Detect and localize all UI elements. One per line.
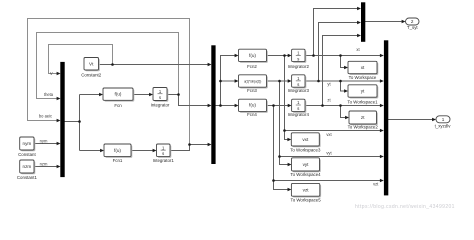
integrator Integrator3 [292, 75, 305, 87]
svg-text:To Workspace4: To Workspace4 [290, 172, 321, 177]
node Vt tap [111, 63, 114, 66]
svg-text:s: s [297, 82, 299, 87]
svg-text:Constant2: Constant2 [81, 73, 102, 78]
wire zt feedback to Mux3 [323, 36, 360, 106]
arrows into Mux3 [357, 7, 361, 10]
node vyt tap [278, 80, 281, 83]
svg-text:To Workspace: To Workspace [349, 75, 377, 80]
svg-text:f(u): f(u) [114, 148, 121, 153]
arrows into Mux2 [208, 63, 212, 66]
svg-text:V: V [50, 71, 53, 76]
mux Mux3 [361, 2, 365, 42]
node distributor bottom [219, 104, 222, 107]
wire nym [34, 143, 60, 145]
mux Mux2 [211, 45, 215, 164]
constant Constant1 [20, 160, 34, 173]
BLOCK LABELS [17, 25, 451, 202]
wire Integrator output [167, 94, 179, 96]
wire distributor to Fcn2 [221, 56, 238, 106]
wire Mux3 output to outport 2 [365, 21, 402, 23]
fcn Fcn2 [239, 49, 267, 61]
wire distributor to Fcn3 [221, 80, 238, 82]
arrow into outport 1 [432, 118, 436, 121]
node vzt tap [272, 104, 275, 107]
arrow into Fcn1 [100, 149, 104, 152]
wire branch to To Workspace2 [341, 106, 348, 118]
wire yt feedback to Mux3 [319, 23, 360, 82]
svg-text:Constant1: Constant1 [17, 175, 38, 180]
svg-text:nym: nym [40, 138, 48, 143]
wire loop V feedback [49, 45, 113, 74]
BLOCK SHADOWS [21, 51, 378, 198]
svg-text:nzm: nzm [40, 161, 48, 166]
svg-text:Vt: Vt [89, 61, 94, 66]
WIRES-MAIN [34, 9, 433, 190]
integrator Integrator2 [292, 49, 305, 61]
node xt feedback tap [312, 54, 315, 57]
fcn Fcn4 [239, 99, 267, 111]
wire Mux2 output to Fcn4 [216, 105, 238, 107]
to-workspace To Workspace5 [291, 183, 319, 196]
arrows into Mux6 [380, 54, 384, 57]
svg-text:To Workspace2: To Workspace2 [348, 125, 379, 130]
wire loop psi feedback [28, 19, 190, 145]
arrow into outport 2 [402, 20, 406, 23]
arrows into Integrator2 3 4 [288, 54, 292, 57]
arrows into Fcn2 Fcn3 Fcn4 [235, 54, 239, 57]
svg-text:s: s [297, 56, 299, 61]
constant Constant2 [84, 58, 99, 71]
wire Mux6 output to outport 1 [388, 119, 433, 121]
SIGNAL LABELS [39, 47, 379, 186]
arrows into To Workspace blocks [344, 66, 348, 69]
wire Mux1 output [65, 95, 103, 151]
svg-text:t_xyzdlv: t_xyzdlv [435, 123, 452, 128]
svg-text:s: s [159, 95, 161, 100]
svg-text:Fcn3: Fcn3 [247, 88, 257, 93]
svg-text:f(u): f(u) [249, 103, 256, 108]
INTEGRATOR FRACTIONS [158, 55, 301, 150]
wire vyt [280, 81, 383, 157]
wire vyt branch to To Workspace4 [280, 157, 291, 165]
node vyt workspace branch [278, 155, 281, 158]
wire vzt [274, 106, 383, 181]
svg-text:nym: nym [23, 141, 32, 146]
svg-text:Integrator: Integrator [151, 102, 170, 107]
wire branch to To Workspace1 [341, 81, 347, 91]
node vxt tap [283, 54, 286, 57]
arrow into Integrator [149, 93, 153, 96]
integrator Integrator [153, 88, 167, 101]
integrator Integrator1 [157, 144, 171, 157]
BLOCK INNER TEXT [23, 19, 445, 192]
ARROWHEADS [57, 7, 436, 191]
node vxt workspace branch [283, 129, 286, 132]
node zt feedback tap [321, 104, 324, 107]
arrow into Integrator1 [153, 149, 157, 152]
wire Fcn1 to Integrator1 [131, 150, 155, 152]
wire Integrator2 output xt [305, 55, 382, 57]
node Integrator1 tap [188, 143, 191, 146]
wire Fcn4 to Integrator4 [267, 105, 291, 107]
wire loop theta feedback [37, 33, 179, 99]
wire vxt branch to To Workspace3 [285, 131, 290, 140]
svg-text:To Workspace5: To Workspace5 [291, 197, 322, 202]
to-workspace To Workspace3 [291, 133, 319, 146]
wire Integrator4 output zt [305, 105, 382, 107]
svg-text:f(u): f(u) [115, 92, 122, 97]
svg-text:bo aeic: bo aeic [39, 113, 52, 118]
wire Integrator3 output yt [305, 80, 382, 82]
svg-text:theta: theta [44, 92, 54, 97]
svg-text:Constant: Constant [18, 152, 36, 157]
outport 2 T_syt [406, 18, 420, 25]
BLOCK BODIES [20, 18, 450, 196]
fcn Fcn3 [239, 75, 267, 87]
fcn Fcn [103, 88, 133, 100]
node yt feedback tap [317, 80, 320, 83]
constant Constant [20, 137, 34, 150]
node distributor Fcn3 [219, 80, 222, 83]
wire Fcn3 to Integrator3 [267, 80, 291, 82]
svg-text:vyt: vyt [303, 162, 310, 167]
svg-text:Fcn4: Fcn4 [247, 112, 257, 117]
svg-text:nzm: nzm [23, 164, 32, 169]
node To Workspace branch xt [339, 54, 342, 57]
svg-text:Integrator1: Integrator1 [153, 158, 175, 163]
svg-text:vzt: vzt [303, 187, 310, 192]
to-workspace To Workspace2 [349, 111, 377, 124]
node To Workspace branch zt [339, 104, 342, 107]
svg-text:u(1)*sin(u(2)): u(1)*sin(u(2)) [244, 79, 261, 83]
svg-text:vxt: vxt [302, 137, 309, 142]
wire xt feedback to Mux3 [314, 9, 360, 56]
svg-text:Integrator2: Integrator2 [288, 64, 310, 69]
svg-text:https://blog.csdn.net/weixin_4: https://blog.csdn.net/weixin_43499201 [355, 204, 455, 210]
svg-text:T_syt: T_syt [407, 25, 419, 30]
to-workspace To Workspace [348, 61, 377, 73]
svg-text:To Workspace3: To Workspace3 [290, 148, 321, 153]
svg-text:s: s [297, 106, 299, 111]
node vzt workspace branch [272, 179, 275, 182]
svg-text:vyt: vyt [326, 151, 332, 156]
svg-text:2: 2 [411, 19, 414, 24]
svg-text:To Workspace1: To Workspace1 [347, 99, 378, 104]
svg-text:Fcn1: Fcn1 [113, 158, 123, 163]
mux Mux1 [60, 62, 64, 177]
integrator Integrator4 [292, 99, 305, 111]
node Integrator out tap [177, 93, 180, 96]
arrow into Fcn [99, 93, 103, 96]
svg-text:vxt: vxt [326, 132, 332, 137]
wire Fcn to Integrator [133, 94, 152, 96]
wire Vt output [99, 64, 210, 66]
node Mux1 out branch [78, 120, 81, 123]
svg-text:Fcn2: Fcn2 [247, 64, 257, 69]
to-workspace To Workspace1 [348, 85, 377, 97]
wire Fcn2 to Integrator2 [267, 55, 291, 57]
svg-text:1: 1 [442, 117, 445, 122]
to-workspace To Workspace4 [292, 158, 320, 171]
svg-text:Integrator4: Integrator4 [288, 112, 310, 117]
wire vzt branch to To Workspace5 [274, 181, 290, 190]
node To Workspace branch yt [339, 80, 342, 83]
wire theta jog to Mux2 [179, 95, 210, 106]
svg-text:s: s [162, 151, 164, 156]
wire Integrator1 output [170, 145, 210, 151]
fcn Fcn1 [104, 144, 131, 157]
svg-text:Integrator3: Integrator3 [288, 88, 310, 93]
wire vxt [285, 56, 383, 131]
WIRES-LOOPS [28, 19, 190, 145]
arrows into Mux1 [57, 72, 61, 75]
svg-text:Fcn: Fcn [114, 103, 122, 108]
mux Mux6 [384, 40, 388, 195]
MUX BARS [60, 2, 388, 195]
outport 1 t_xyzdlv [436, 116, 450, 123]
svg-text:vzt: vzt [373, 181, 379, 186]
wire nzm [34, 166, 60, 168]
wire branch to To Workspace [341, 56, 347, 68]
svg-text:f(u): f(u) [249, 53, 256, 58]
